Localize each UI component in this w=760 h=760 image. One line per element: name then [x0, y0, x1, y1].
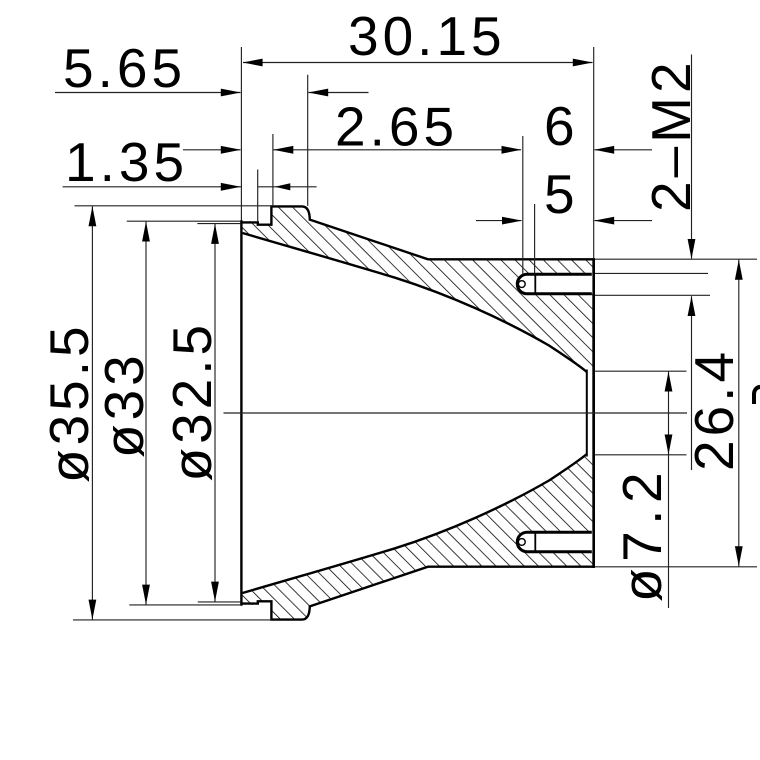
centerline	[224, 412, 688, 414]
svg-text:30.15: 30.15	[348, 5, 506, 67]
right face	[592, 258, 595, 568]
dim 26.4 line	[738, 260, 740, 567]
dim 5.65 lines	[55, 92, 241, 94]
left face of flange	[240, 220, 242, 605]
dim 5 line	[476, 220, 522, 222]
dim 2.65 / 6 line	[183, 149, 241, 151]
M2 tapped hole slot	[517, 274, 593, 294]
dim dia35.5 line	[91, 207, 93, 620]
svg-text:5: 5	[544, 163, 579, 225]
dim dia7.2 line	[668, 372, 670, 608]
2-M2 leader	[691, 55, 693, 259]
thread depth line	[534, 532, 536, 552]
svg-text:2.65: 2.65	[335, 96, 458, 158]
dim dia32.5 line	[214, 224, 216, 602]
extension lines top	[240, 47, 242, 221]
upper outline: counterbore edges, flange tab, cone, cylinder	[240, 206, 593, 259]
hatched cross-section upper half	[241, 206, 593, 371]
hatched cross-section lower half	[241, 455, 593, 620]
drill tip detail	[518, 281, 525, 288]
dim dia33 line	[145, 222, 147, 605]
svg-text:26.4: 26.4	[683, 348, 745, 471]
dia extension lines	[75, 205, 272, 207]
svg-text:ø32.5: ø32.5	[161, 321, 223, 482]
drill tip detail	[518, 539, 525, 546]
svg-text:6: 6	[544, 95, 579, 157]
svg-text:ø33: ø33	[93, 351, 155, 458]
thread depth line	[534, 274, 536, 294]
inner reflector curve upper	[243, 233, 587, 372]
svg-text:1.35: 1.35	[65, 131, 188, 193]
dim 30.15 line	[243, 62, 593, 64]
right side extension lines	[595, 258, 757, 260]
svg-text:2–M2: 2–M2	[640, 58, 702, 212]
right face (over slots)	[592, 258, 595, 568]
aperture inner wall	[586, 370, 588, 457]
svg-text:5.65: 5.65	[63, 37, 186, 99]
dim 1.35 line	[63, 186, 242, 188]
lower outline mirror	[240, 567, 593, 620]
inner reflector curve lower	[243, 454, 587, 593]
svg-text:ø7.2: ø7.2	[611, 466, 673, 602]
partial glyph at right edge	[754, 387, 760, 404]
M2 tapped hole slot	[517, 532, 593, 552]
svg-text:ø35.5: ø35.5	[38, 322, 100, 483]
